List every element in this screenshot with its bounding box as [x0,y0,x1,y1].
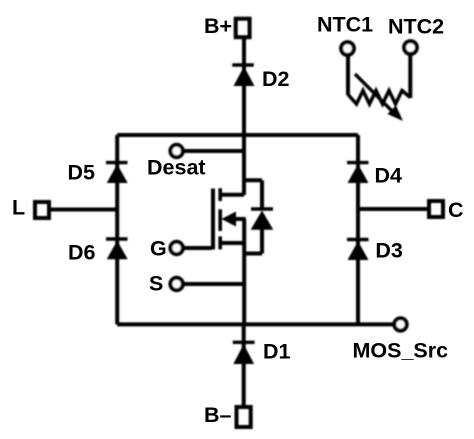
body diode DB [251,209,274,230]
node MOS_Src [394,318,406,330]
terminal L [35,202,49,218]
wire NTC1 down [346,56,350,96]
svg-text:D3: D3 [375,239,403,263]
terminal B+ [236,19,250,38]
diode D1 [233,342,255,364]
body diode vertical top [260,180,264,209]
terminal C [429,201,443,217]
wire Desat to drain net [182,149,244,153]
wire NTC2 down [408,55,412,99]
wire source [220,241,246,245]
wire S to source net [182,282,244,286]
diode D4 [347,163,369,183]
wire body diode top branch [244,178,262,182]
terminal G [170,242,182,254]
svg-text:D2: D2 [262,67,290,91]
svg-text:NTC2: NTC2 [388,15,444,39]
wire D1 to B- [242,324,246,405]
svg-text:NTC1: NTC1 [317,13,373,37]
op mosfet Q1 gate bar [211,189,215,250]
wire L to left branch [51,208,117,212]
wire right branch [356,135,360,324]
diode D3 [347,240,369,261]
svg-text:C: C [448,198,464,222]
mosfet Q1 channel top segment [218,188,222,201]
svg-text:Desat: Desat [147,155,206,179]
wire top bus [117,133,358,137]
wire left branch [115,135,119,324]
svg-text:D4: D4 [375,163,403,187]
svg-text:B–: B– [204,403,232,427]
body diode vertical bottom [260,230,264,254]
mosfet Q1 channel middle segment [218,209,222,231]
diode D6 [106,239,128,259]
terminal S [170,278,182,290]
resistor RT thermistor zigzag [348,91,410,105]
wire source net vertical [242,219,246,324]
terminal Desat [170,145,182,157]
wire right branch to C [358,207,427,211]
diode D2 [232,65,254,86]
svg-text:MOS_Src: MOS_Src [353,339,449,363]
thermistor arrow [355,74,403,121]
svg-text:D5: D5 [68,160,96,184]
terminal B- [237,407,251,427]
diode D5 [106,163,128,183]
wire G to gate [182,246,211,250]
svg-text:G: G [150,237,167,261]
mosfet Q1 body arrow [222,212,237,227]
terminal NTC2 [404,41,417,54]
wire drain [220,193,244,197]
wire B+ to drain net [242,39,246,195]
svg-text:D1: D1 [263,340,291,364]
svg-text:L: L [12,196,25,220]
wire body diode bottom branch [244,252,262,256]
svg-text:D6: D6 [68,241,96,265]
wire body to source net [234,217,246,221]
mosfet Q1 channel bottom segment [218,236,222,249]
terminal NTC1 [341,42,354,55]
svg-text:B+: B+ [204,14,232,38]
svg-text:S: S [149,272,163,296]
wire bottom bus [117,322,393,326]
